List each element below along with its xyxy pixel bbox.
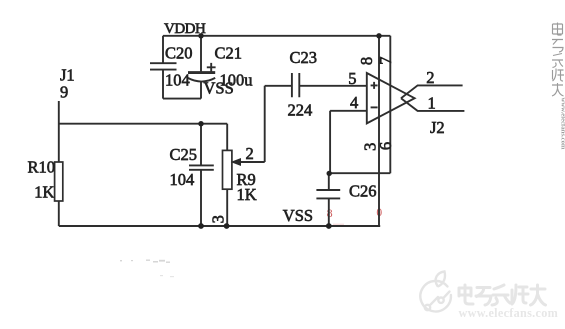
svg-text:VDDH: VDDH — [164, 21, 206, 37]
svg-text:C21: C21 — [215, 44, 243, 63]
svg-text:1K: 1K — [34, 183, 54, 202]
svg-text:2: 2 — [246, 144, 254, 163]
svg-text:C23: C23 — [290, 48, 318, 67]
svg-text:7: 7 — [376, 56, 395, 64]
svg-text:5: 5 — [348, 69, 356, 88]
svg-text:104: 104 — [170, 170, 195, 189]
svg-text:4: 4 — [350, 93, 358, 112]
svg-text:1K: 1K — [237, 185, 257, 204]
svg-text:8: 8 — [357, 57, 376, 65]
svg-text:3: 3 — [209, 215, 228, 223]
svg-text:C25: C25 — [170, 145, 198, 164]
svg-text:9: 9 — [60, 83, 68, 102]
svg-text:6: 6 — [376, 142, 395, 150]
svg-text:C26: C26 — [349, 182, 377, 201]
svg-text:C20: C20 — [165, 44, 193, 63]
svg-text:www.elecfans.com: www.elecfans.com — [459, 306, 559, 320]
svg-text:VSS: VSS — [283, 206, 313, 225]
svg-text:104: 104 — [165, 71, 190, 90]
svg-text:2: 2 — [426, 68, 434, 87]
svg-text:1: 1 — [428, 94, 436, 113]
svg-text:J2: J2 — [430, 118, 445, 137]
svg-text:VSS: VSS — [204, 79, 234, 98]
svg-text:R10: R10 — [28, 158, 56, 177]
svg-text:www.elecfans.com: www.elecfans.com — [560, 98, 565, 150]
svg-text:224: 224 — [288, 100, 313, 119]
